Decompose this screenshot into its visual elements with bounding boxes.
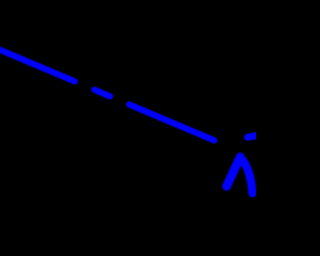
wire short dash near right edge (248, 135, 259, 137)
wire main solid segment (0, 47, 75, 81)
wire dash segment 2 (long) (129, 105, 214, 141)
chevron left stroke (227, 157, 241, 186)
chevron right stroke (240, 157, 252, 193)
wire dash segment 1 (94, 90, 110, 97)
